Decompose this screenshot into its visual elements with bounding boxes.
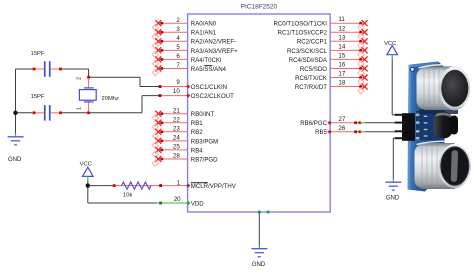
svg-text:RB7/PGD: RB7/PGD — [191, 156, 218, 163]
svg-text:23: 23 — [173, 126, 180, 133]
svg-text:RA0/AN0: RA0/AN0 — [191, 21, 217, 28]
svg-text:3: 3 — [176, 26, 180, 33]
svg-text:9: 9 — [176, 79, 180, 86]
svg-text:OSC2/CLKOUT: OSC2/CLKOUT — [191, 93, 234, 100]
svg-text:OSC1/CLKIN: OSC1/CLKIN — [191, 84, 227, 91]
svg-text:15PF: 15PF — [31, 94, 45, 100]
svg-text:VCC: VCC — [80, 162, 92, 168]
svg-text:RB3/PGM: RB3/PGM — [191, 138, 218, 145]
svg-text:RC2/CCP1: RC2/CCP1 — [297, 39, 328, 46]
svg-text:24: 24 — [173, 135, 180, 142]
svg-text:RA1/AN1: RA1/AN1 — [191, 30, 217, 37]
svg-text:2: 2 — [176, 17, 180, 24]
svg-text:RB0/INT: RB0/INT — [191, 111, 215, 118]
svg-text:RC4/SDI/SDA: RC4/SDI/SDA — [289, 57, 328, 64]
svg-text:5: 5 — [176, 44, 180, 51]
svg-text:21: 21 — [173, 107, 180, 114]
svg-text:10: 10 — [173, 88, 180, 95]
svg-text:1: 1 — [76, 107, 82, 110]
svg-text:6: 6 — [176, 53, 180, 60]
svg-text:13: 13 — [338, 34, 345, 41]
svg-text:RA4/T0CKI: RA4/T0CKI — [191, 57, 222, 64]
svg-text:26: 26 — [338, 125, 345, 132]
svg-text:RC5/SDO: RC5/SDO — [300, 66, 327, 73]
svg-text:RB5: RB5 — [315, 129, 327, 136]
svg-text:RB2: RB2 — [191, 129, 203, 136]
svg-text:RA2/AN2/VREF-: RA2/AN2/VREF- — [191, 39, 236, 46]
svg-text:25: 25 — [173, 144, 180, 151]
svg-text:12: 12 — [338, 25, 345, 32]
svg-text:18: 18 — [338, 80, 345, 87]
svg-text:MCLR/VPP/THV: MCLR/VPP/THV — [191, 183, 237, 190]
svg-text:15: 15 — [338, 52, 345, 59]
svg-text:22: 22 — [173, 116, 180, 123]
svg-text:1: 1 — [177, 179, 181, 186]
svg-text:PIC18F2520: PIC18F2520 — [241, 4, 278, 11]
svg-text:GND: GND — [386, 196, 400, 202]
svg-text:16: 16 — [338, 61, 345, 68]
svg-text:RB1: RB1 — [191, 120, 203, 127]
svg-text:20: 20 — [174, 196, 181, 203]
svg-text:VCC: VCC — [384, 41, 396, 47]
svg-text:VDD: VDD — [191, 200, 204, 207]
svg-text:RB6/PGC: RB6/PGC — [300, 120, 327, 127]
svg-text:7: 7 — [176, 62, 180, 69]
svg-text:RA3/AN3/VREF+: RA3/AN3/VREF+ — [191, 48, 238, 55]
svg-text:15PF: 15PF — [31, 51, 45, 57]
svg-text:RC0/T1OSO/T1CKI: RC0/T1OSO/T1CKI — [273, 21, 327, 28]
svg-text:20Mhz: 20Mhz — [102, 96, 120, 102]
svg-text:GND: GND — [8, 157, 22, 163]
svg-text:RB4: RB4 — [191, 147, 203, 154]
svg-text:17: 17 — [338, 71, 345, 78]
svg-text:RC1/T1OSI/CCP2: RC1/T1OSI/CCP2 — [278, 30, 328, 37]
svg-text:RC7/RX/DT: RC7/RX/DT — [295, 84, 327, 91]
svg-text:RC6/TX/CK: RC6/TX/CK — [295, 75, 327, 82]
svg-text:RC3/SCK/SCL: RC3/SCK/SCL — [287, 48, 328, 55]
svg-text:GND: GND — [252, 262, 266, 268]
svg-text:27: 27 — [338, 116, 345, 123]
svg-text:2: 2 — [76, 77, 82, 80]
svg-text:11: 11 — [338, 16, 345, 23]
svg-text:28: 28 — [173, 153, 180, 160]
svg-text:4: 4 — [176, 35, 180, 42]
svg-text:RA5/SS/AN4: RA5/SS/AN4 — [191, 66, 227, 73]
svg-text:10k: 10k — [123, 193, 132, 199]
svg-text:14: 14 — [338, 43, 345, 50]
